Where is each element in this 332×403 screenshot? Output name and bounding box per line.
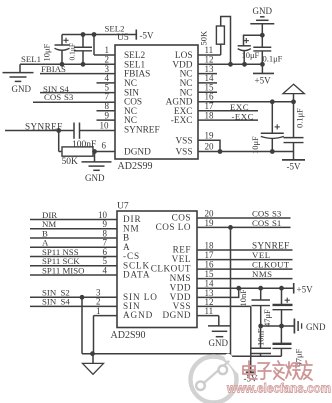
svg-text:AGND: AGND (123, 310, 153, 320)
svg-text:COS: COS (252, 218, 269, 228)
svg-text:CLKOUT: CLKOUT (151, 264, 191, 274)
svg-text:GND: GND (306, 322, 326, 332)
svg-text:NMS: NMS (252, 269, 273, 279)
svg-text:U7: U7 (117, 202, 129, 212)
svg-text:S3: S3 (64, 92, 74, 102)
svg-text:1: 1 (96, 306, 101, 316)
svg-text:50K: 50K (199, 30, 209, 46)
svg-text:-EXC: -EXC (232, 111, 255, 121)
svg-text:9: 9 (105, 110, 110, 120)
svg-text:COS LO: COS LO (156, 222, 191, 232)
svg-text:GND: GND (253, 6, 273, 16)
svg-text:S4: S4 (61, 297, 71, 307)
svg-text:16: 16 (205, 260, 215, 270)
svg-text:4: 4 (103, 265, 108, 275)
svg-text:18: 18 (205, 110, 215, 120)
svg-text:DGND: DGND (124, 147, 151, 157)
svg-text:10nF: 10nF (238, 289, 248, 307)
svg-text:47μF: 47μF (262, 309, 272, 327)
svg-text:10μF: 10μF (42, 43, 52, 61)
svg-text:COS: COS (44, 92, 61, 102)
svg-text:CLKOUT: CLKOUT (252, 260, 290, 270)
svg-text:19: 19 (205, 218, 215, 228)
svg-text:VEL: VEL (172, 254, 191, 264)
svg-text:SYNREF: SYNREF (124, 126, 160, 136)
svg-text:SP11 MISO: SP11 MISO (42, 265, 84, 275)
svg-text:-5V: -5V (140, 31, 154, 41)
svg-text:SEL2: SEL2 (105, 24, 125, 34)
svg-text:FBIAS: FBIAS (41, 64, 66, 74)
svg-text:AD2S90: AD2S90 (111, 330, 146, 341)
svg-text:0.1μF: 0.1μF (68, 43, 77, 61)
svg-text:AD2S99: AD2S99 (118, 161, 153, 172)
svg-text:-EXC: -EXC (171, 116, 193, 126)
svg-text:S1: S1 (272, 218, 281, 228)
svg-text:-5V: -5V (287, 161, 301, 171)
svg-text:19: 19 (205, 130, 215, 140)
svg-text:GND: GND (12, 84, 32, 94)
svg-text:100nF: 100nF (72, 140, 96, 150)
svg-text:DGND: DGND (162, 310, 191, 320)
svg-text:GND: GND (209, 338, 229, 348)
svg-text:DATA: DATA (123, 270, 150, 280)
svg-text:50K: 50K (62, 157, 79, 167)
svg-text:20: 20 (205, 142, 215, 152)
svg-text:0.1μF: 0.1μF (263, 54, 283, 64)
svg-text:11: 11 (205, 306, 214, 316)
svg-text:SYNREF: SYNREF (252, 240, 290, 250)
svg-text:10nF: 10nF (256, 328, 266, 346)
svg-text:+5V: +5V (297, 284, 314, 294)
svg-text:SIN: SIN (42, 297, 57, 307)
svg-text:15: 15 (205, 269, 215, 279)
svg-text:10: 10 (100, 120, 110, 130)
svg-text:0.1μF: 0.1μF (295, 108, 305, 128)
svg-text:VSS: VSS (175, 148, 192, 158)
svg-text:NMS: NMS (170, 273, 191, 283)
svg-text:www.elecfans.com: www.elecfans.com (226, 382, 331, 396)
svg-text:6: 6 (102, 141, 107, 151)
svg-text:18: 18 (205, 240, 215, 250)
svg-text:VSS: VSS (175, 136, 192, 146)
svg-text:SEL1: SEL1 (21, 54, 41, 64)
svg-text:VEL: VEL (252, 250, 271, 260)
svg-text:REF: REF (173, 245, 191, 255)
svg-text:17: 17 (205, 250, 215, 260)
svg-text:+5V: +5V (255, 75, 272, 85)
svg-text:GND: GND (85, 173, 105, 183)
